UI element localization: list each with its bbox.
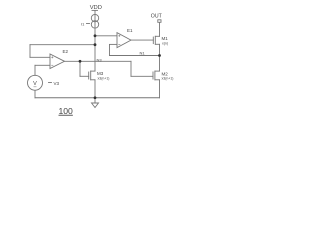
svg-text:x3(n+1): x3(n+1) xyxy=(98,77,110,81)
svg-text:V3: V3 xyxy=(54,81,60,86)
svg-text:N1: N1 xyxy=(140,51,146,56)
svg-text:V: V xyxy=(33,81,37,87)
svg-text:E2: E2 xyxy=(63,49,69,54)
svg-text:E1: E1 xyxy=(127,28,133,33)
svg-text:x(n): x(n) xyxy=(162,42,168,46)
svg-text:VDD: VDD xyxy=(90,5,102,11)
svg-text:OUT: OUT xyxy=(151,14,163,20)
svg-text:M3: M3 xyxy=(97,71,104,76)
svg-text:x3(n+1): x3(n+1) xyxy=(162,77,174,81)
svg-text:N3: N3 xyxy=(97,57,103,62)
svg-text:100: 100 xyxy=(59,106,74,116)
svg-text:M1: M1 xyxy=(162,36,169,41)
